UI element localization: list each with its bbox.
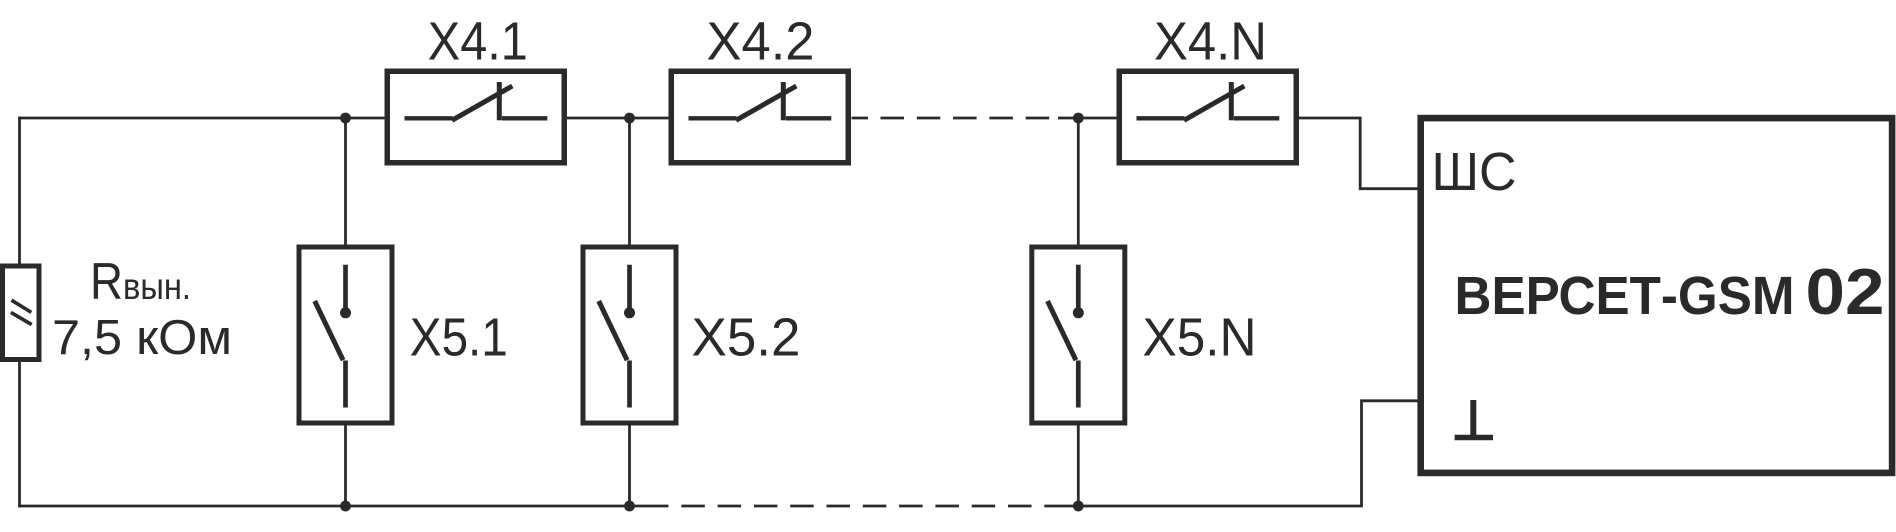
svg-text:X5.2: X5.2 xyxy=(692,308,801,368)
svg-text:02: 02 xyxy=(1806,255,1885,328)
svg-text:X4.N: X4.N xyxy=(1154,12,1267,72)
wire: X5.2 drop from top rail xyxy=(628,118,631,245)
wire: bottom rail solid left part xyxy=(18,505,645,508)
svg-text:X5.N: X5.N xyxy=(1143,308,1257,368)
svg-text:Rвын.: Rвын. xyxy=(90,253,191,311)
wire: dashed bottom rail segment xyxy=(645,505,1058,508)
contact X4.N (normally-closed break contact in box) xyxy=(1119,71,1296,163)
svg-text:X4.2: X4.2 xyxy=(707,12,815,72)
contact X4.1 (normally-closed break contact in box) xyxy=(387,71,564,163)
wire: top rail between X4.1 and X4.2 xyxy=(567,117,670,120)
wire: top rail solid into X4.N xyxy=(1058,117,1117,120)
wire: left riser upper segment xyxy=(18,117,21,264)
contact X5.N (normally-open contact in box) xyxy=(1032,247,1125,423)
resistor Rвын 7,5 кОм (terminating resistor body) xyxy=(3,266,40,360)
svg-text:ВЕРСЕТ-GSM: ВЕРСЕТ-GSM xyxy=(1455,266,1795,326)
contact X5.1 (normally-open contact in box) xyxy=(299,247,392,423)
wire: X5.N drop from top rail xyxy=(1077,118,1080,245)
contact X5.2 (normally-open contact in box) xyxy=(583,247,676,423)
wire: solid stub right of X4.2 xyxy=(852,117,869,120)
device U1 ВЕРСЕТ-GSM 02 (outline box) xyxy=(1421,118,1892,473)
wire: X5.2 drop to bottom rail xyxy=(628,426,631,507)
junction node: top rail / X5.1 xyxy=(340,113,351,124)
wire: X5.N drop to bottom rail xyxy=(1077,426,1080,507)
junction node: bottom rail / X5.1 xyxy=(340,501,351,512)
svg-text:X4.1: X4.1 xyxy=(428,12,528,72)
junction node: bottom rail / X5.N xyxy=(1073,501,1084,512)
wire: bottom rail to device common terminal xyxy=(1058,401,1418,506)
junction node: bottom rail / X5.2 xyxy=(624,501,635,512)
wire: top rail from left corner to X4.1 xyxy=(18,117,384,120)
wire: left riser lower segment xyxy=(18,362,21,508)
junction node: top rail / X5.N xyxy=(1073,113,1084,124)
contact X4.2 (normally-closed break contact in box) xyxy=(671,71,848,163)
svg-text:X5.1: X5.1 xyxy=(410,308,508,368)
wire: dashed top rail segment xyxy=(881,117,1059,120)
svg-text:7,5 кОм: 7,5 кОм xyxy=(52,311,232,365)
wire: X5.1 drop to bottom rail xyxy=(344,426,347,507)
wire: X5.1 drop from top rail xyxy=(344,118,347,245)
ground / common terminal symbol inside device xyxy=(1455,400,1493,438)
junction node: top rail / X5.2 xyxy=(624,113,635,124)
wire: X4.N output to ШС input of device xyxy=(1299,118,1419,189)
svg-text:ШС: ШС xyxy=(1432,142,1517,202)
